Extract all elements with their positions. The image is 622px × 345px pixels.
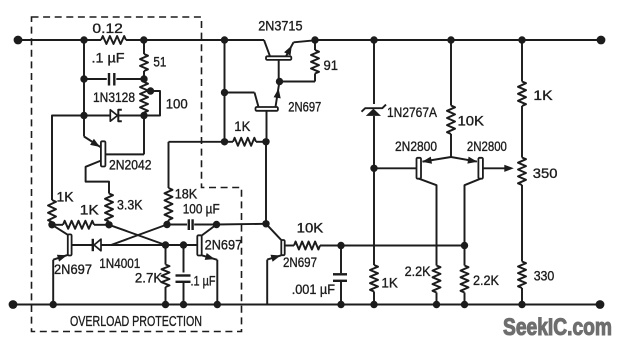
capacitor .001uF: [333, 246, 347, 305]
svg-text:1K: 1K: [381, 275, 398, 291]
wire cross-coupling diagonal A: [109, 225, 166, 245]
svg-text:1K: 1K: [57, 189, 75, 205]
node sense/.001uF junction: [337, 242, 344, 249]
label .1 uF (bottom): [191, 273, 216, 289]
svg-text:1N3128: 1N3128: [93, 89, 135, 105]
node top rail / 1K junction: [518, 36, 525, 43]
svg-text:1K: 1K: [234, 118, 251, 134]
wire 18K-top to 1K-mid corner: [169, 141, 225, 143]
svg-text:1K: 1K: [533, 87, 553, 103]
potentiometer 100: [140, 79, 148, 116]
wire x52 branch: [52, 116, 84, 201]
svg-text:91: 91: [324, 57, 339, 73]
node diode-row right junction: [140, 112, 147, 119]
node 1K/1K junction: [48, 221, 55, 228]
transistor 2N697 (sense): [266, 224, 285, 305]
watermark SeekIC.com: [503, 314, 612, 341]
node cap-left junction: [80, 75, 87, 82]
svg-text:100: 100: [166, 96, 188, 112]
wire x84 vertical: [83, 40, 85, 116]
node bottom rail / emitter junction: [50, 301, 57, 308]
label 2N2800 (right): [467, 138, 507, 154]
label 2N697 (flip-flop right): [205, 237, 243, 253]
label 2N697 (driver): [288, 99, 321, 115]
transistor 2N2042: [84, 116, 144, 194]
node pot 100 wiper: [147, 87, 154, 94]
label 10K (horizontal): [297, 220, 324, 236]
wire sense line to 2.2K: [341, 245, 465, 247]
node bottom rail / 1K-div junction: [370, 301, 377, 308]
label 51: [153, 54, 166, 70]
label 2N697 (sense): [283, 254, 317, 270]
transistor 2N3715 (pass): [264, 40, 315, 82]
label 3.3K: [117, 197, 143, 213]
label 1K (left vertical): [57, 189, 75, 205]
diode 1N4001: [72, 239, 198, 251]
diode 1N3128 tunnel: [84, 110, 144, 122]
svg-text:2N697: 2N697: [205, 237, 243, 253]
label 2.2K (left): [405, 263, 432, 279]
node bottom rail / 2.7K junction: [162, 301, 169, 308]
label 2N697 (flip-flop left): [54, 261, 92, 277]
svg-text:2.2K: 2.2K: [473, 272, 500, 288]
node base-row/.1uF junction: [180, 241, 187, 248]
node input terminal (top left): [14, 36, 23, 45]
label 10K (vertical): [458, 113, 485, 129]
label 100: [166, 96, 188, 112]
node output terminal (top right): [597, 36, 606, 45]
node bottom rail / .1uF junction: [180, 301, 187, 308]
node top rail / x224.5 junction: [221, 36, 228, 43]
node top rail / zener junction: [370, 36, 377, 43]
transistor 2N2800 (left): [374, 157, 451, 266]
resistor 3.3K: [105, 194, 113, 225]
capacitor 100uF: [167, 219, 217, 230]
label 2.7K: [135, 270, 163, 286]
svg-text:2N697: 2N697: [54, 261, 92, 277]
node 18K/100uF junction: [163, 221, 170, 228]
wire pot 350 to 330: [521, 185, 523, 262]
node bottom-right terminal: [596, 300, 605, 309]
wire top rail left segment: [18, 39, 264, 41]
svg-text:10K: 10K: [458, 113, 485, 129]
resistor 2.2K (left): [433, 266, 441, 305]
label 1K (top right): [533, 87, 553, 103]
label 2N3715: [258, 18, 302, 34]
node bottom rail / 2.2K-L junction: [433, 301, 440, 308]
svg-text:2N2042: 2N2042: [109, 157, 152, 173]
wire cross-coupling diagonal B: [111, 225, 167, 246]
svg-text:2N697: 2N697: [283, 254, 317, 270]
label 1K (output divider): [381, 275, 398, 291]
svg-text:18K: 18K: [175, 186, 198, 202]
svg-text:OVERLOAD PROTECTION: OVERLOAD PROTECTION: [70, 313, 202, 330]
dashed box OVERLOAD PROTECTION outline: [32, 17, 242, 332]
transistor 2N697 (flip-flop left): [52, 225, 72, 305]
node bottom-left terminal: [9, 300, 18, 309]
capacitor .1uF (top): [84, 73, 144, 86]
resistor 330: [518, 262, 526, 305]
svg-text:2N2800: 2N2800: [395, 138, 437, 154]
label .1 uF (top): [92, 50, 125, 66]
label 350: [533, 165, 558, 181]
svg-text:2N3715: 2N3715: [258, 18, 302, 34]
label 330: [534, 268, 555, 284]
resistor 10K (vertical): [447, 40, 455, 157]
svg-text:1K: 1K: [80, 202, 100, 218]
svg-text:SeekIC.com: SeekIC.com: [503, 314, 612, 341]
wire driver base vertical: [265, 142, 267, 224]
node bottom rail / emitter2 junction: [214, 301, 221, 308]
node bottom rail / .001uF junction: [337, 301, 344, 308]
resistor 10K (horizontal): [285, 242, 341, 250]
label 2.2K (right): [473, 272, 500, 288]
potentiometer 350: [518, 158, 526, 186]
wire x224.5 vertical: [224, 40, 226, 142]
transistor 2N2800 (right): [451, 157, 514, 246]
svg-text:2N697: 2N697: [288, 99, 321, 115]
node 1K/base junction: [262, 138, 269, 145]
svg-text:3.3K: 3.3K: [117, 197, 143, 213]
node cap-right junction: [140, 75, 147, 82]
transistor 2N697 (flip-flop right): [197, 225, 217, 305]
resistor 1K (horizontal): [52, 221, 109, 229]
transistor 2N697 (driver): [225, 82, 281, 142]
node x224.5 collector tap: [221, 89, 228, 96]
label 2N2042: [109, 157, 152, 173]
capacitor .1uF (bottom): [176, 245, 191, 305]
svg-text:.1 µF: .1 µF: [191, 273, 216, 289]
label 2N2800 (left): [395, 138, 437, 154]
resistor 1K (output divider): [370, 168, 378, 304]
resistor 18K: [165, 142, 173, 225]
node emitter / top rail junction: [311, 36, 318, 43]
label OVERLOAD PROTECTION: [70, 313, 202, 330]
wire pot 100 wiper loop: [146, 91, 160, 116]
svg-text:0.12: 0.12: [92, 20, 123, 36]
resistor 2.2K (right): [461, 246, 469, 305]
label 91: [324, 57, 339, 73]
svg-text:330: 330: [534, 268, 555, 284]
resistor 1K (left vertical): [48, 200, 56, 225]
node output line / 2.2K junction: [461, 242, 468, 249]
resistor 91: [280, 40, 320, 82]
node 2N3715 base junction: [276, 78, 283, 85]
svg-text:2.7K: 2.7K: [135, 270, 163, 286]
svg-text:100 µF: 100 µF: [183, 201, 220, 217]
node zener / base junction: [370, 165, 377, 172]
resistor 1K (driver base): [225, 138, 267, 146]
svg-text:1N2767A: 1N2767A: [387, 104, 438, 120]
label 1N4001: [99, 255, 140, 271]
zener diode 1N2767A: [362, 40, 387, 168]
svg-text:.1 µF: .1 µF: [92, 50, 125, 66]
node 100uF/collector junction: [213, 221, 220, 228]
wire bottom rail: [13, 304, 600, 306]
label 18K: [175, 186, 198, 202]
label 1N2767A: [387, 104, 438, 120]
node driver collector junction: [262, 220, 269, 227]
svg-text:350: 350: [533, 165, 558, 181]
node diode-row left junction: [80, 112, 87, 119]
svg-text:.001 µF: .001 µF: [292, 281, 335, 297]
resistor 51: [140, 40, 148, 79]
node bottom rail / 2.2K-R junction: [461, 301, 468, 308]
node top rail / x144 junction: [140, 36, 147, 43]
label 0.12: [92, 20, 123, 36]
resistor 0.12: [101, 36, 126, 44]
label .001 uF: [292, 281, 335, 297]
node top rail / 10K junction: [447, 36, 454, 43]
node bottom rail / 330 junction: [518, 301, 525, 308]
node top rail / x84 junction: [80, 36, 87, 43]
label 1K (driver base): [234, 118, 251, 134]
label 1N3128: [93, 89, 135, 105]
svg-text:51: 51: [153, 54, 166, 70]
wire box-output to driver collector: [217, 223, 267, 226]
label 100 uF: [183, 201, 220, 217]
svg-text:10K: 10K: [297, 220, 324, 236]
resistor 1K (top right): [518, 40, 526, 158]
label 1K (horizontal): [80, 202, 100, 218]
svg-text:2N2800: 2N2800: [467, 138, 507, 154]
svg-text:2.2K: 2.2K: [405, 263, 432, 279]
node 1K/3.3K junction: [105, 221, 112, 228]
node 1N4001/2.7K junction: [162, 241, 169, 248]
resistor 2.7K: [162, 245, 170, 305]
node x224.5 / 1K junction: [221, 138, 228, 145]
wire top rail right segment: [315, 39, 601, 41]
